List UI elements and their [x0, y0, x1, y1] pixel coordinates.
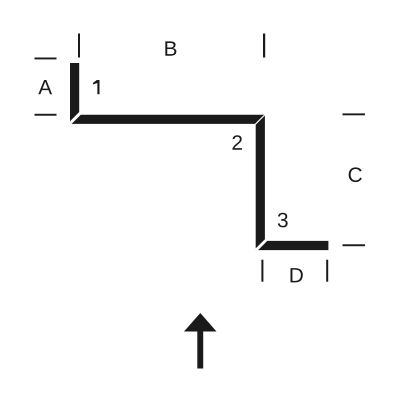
segment 3 bar vertical [256, 116, 265, 249]
tick below D right [326, 260, 328, 282]
dash C bottom [343, 244, 366, 246]
dash C top [343, 113, 366, 115]
tick below D left [261, 260, 263, 282]
dash A top [35, 58, 57, 60]
dash A bottom [35, 114, 57, 116]
segment 1 bar vertical [70, 63, 79, 121]
arrow stem [197, 331, 203, 369]
label 1 [93, 80, 100, 94]
label B [165, 41, 176, 55]
label D [290, 268, 302, 282]
label A [38, 80, 52, 94]
segment 2 bar horizontal [72, 115, 265, 124]
label 3 [278, 213, 288, 228]
label 2 [232, 135, 241, 150]
segment 4 bar horizontal [258, 241, 328, 250]
tick above segment 1 [78, 34, 80, 58]
tick above segment 3 [263, 34, 265, 58]
label C [349, 167, 362, 182]
arrow head [184, 313, 217, 332]
